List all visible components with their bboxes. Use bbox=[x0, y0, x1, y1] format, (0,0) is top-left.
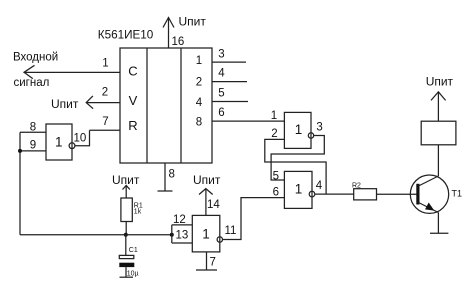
wire pin 14 bbox=[205, 189, 207, 216]
svg-text:7: 7 bbox=[102, 116, 108, 128]
wire C1 to ground bbox=[125, 267, 127, 277]
ground IC pin 8 bbox=[158, 190, 173, 192]
wire R2 to base bbox=[377, 193, 417, 195]
output circle pin 11 bbox=[217, 237, 222, 242]
svg-text:4: 4 bbox=[196, 97, 203, 109]
ground T1 bbox=[430, 232, 448, 234]
output circle pin 3 bbox=[308, 133, 313, 138]
svg-text:Uпит: Uпит bbox=[179, 15, 207, 29]
svg-text:1: 1 bbox=[295, 182, 303, 197]
wire pin 3 to pin 5 bbox=[271, 136, 324, 181]
wire left vertical bbox=[19, 132, 21, 235]
wire pin 4 to R2 bbox=[315, 193, 354, 195]
svg-text:8: 8 bbox=[169, 169, 175, 181]
svg-text:10: 10 bbox=[74, 133, 87, 145]
svg-text:К561ИЕ10: К561ИЕ10 bbox=[98, 28, 154, 41]
emitter line bbox=[419, 203, 439, 213]
svg-text:1: 1 bbox=[202, 227, 210, 242]
wire pin 7 R bbox=[90, 129, 121, 131]
wire R1 to node bbox=[125, 222, 127, 235]
ground gate pin 7 bbox=[196, 269, 217, 271]
wire pin 7 gate to ground bbox=[206, 252, 208, 270]
svg-text:2: 2 bbox=[271, 128, 277, 140]
input arrow bbox=[24, 65, 35, 78]
svg-text:8: 8 bbox=[30, 122, 36, 134]
svg-text:Uпит: Uпит bbox=[51, 97, 79, 111]
wire pin 12 bbox=[172, 224, 193, 226]
svg-text:6: 6 bbox=[218, 107, 224, 119]
svg-text:1: 1 bbox=[271, 110, 277, 122]
junction dot node RC bbox=[124, 233, 128, 237]
power arrow pin 14 bbox=[199, 189, 213, 195]
svg-text:3: 3 bbox=[218, 48, 224, 60]
wire pin 8 to ground bbox=[164, 163, 166, 191]
svg-text:C1: C1 bbox=[129, 247, 138, 254]
svg-text:1: 1 bbox=[295, 122, 303, 137]
resistor R2 bbox=[354, 189, 377, 200]
capacitor C1 top plate bbox=[119, 255, 134, 258]
wire output 8 pin 6 to gate D2.1 input 1 bbox=[212, 120, 284, 122]
svg-text:13: 13 bbox=[176, 229, 189, 241]
capacitor C1 bottom plate bbox=[119, 263, 134, 267]
resistor R1 bbox=[121, 198, 132, 222]
transistor T1 circle bbox=[410, 175, 448, 213]
load box bbox=[421, 121, 456, 145]
emitter arrowhead bbox=[425, 203, 434, 211]
gate D2.2 body bbox=[284, 171, 312, 208]
IC U1 К561ИЕ10 body bbox=[120, 48, 212, 163]
svg-text:1: 1 bbox=[102, 58, 108, 70]
svg-text:R: R bbox=[128, 118, 137, 133]
svg-text:2: 2 bbox=[196, 77, 202, 89]
svg-text:R2: R2 bbox=[352, 183, 361, 190]
wire arrow to R1 bbox=[125, 185, 127, 198]
svg-text:2: 2 bbox=[102, 87, 108, 99]
arrow V pin bbox=[86, 96, 93, 109]
svg-text:8: 8 bbox=[196, 117, 202, 129]
svg-text:4: 4 bbox=[218, 67, 225, 79]
wire pin 13 bbox=[172, 242, 193, 244]
wire output 2 pin 4 bbox=[212, 81, 247, 83]
wire collector to load bbox=[437, 145, 439, 176]
power arrow R1 bbox=[123, 185, 130, 189]
svg-text:1k: 1k bbox=[134, 208, 142, 215]
wire load to Uпит bbox=[437, 92, 439, 121]
wire emitter to ground bbox=[437, 213, 439, 234]
svg-text:сигнал: сигнал bbox=[14, 77, 50, 89]
svg-text:Uпит: Uпит bbox=[193, 173, 221, 187]
pin 8 wire bbox=[20, 131, 46, 133]
wire pin 16 bbox=[168, 18, 170, 49]
svg-text:10µ: 10µ bbox=[127, 271, 139, 278]
base bar bbox=[416, 184, 419, 205]
gate D2.3 body bbox=[46, 124, 72, 160]
wire Uпит to pin 2 V bbox=[86, 102, 120, 104]
pin 9 wire bbox=[20, 150, 46, 152]
collector line bbox=[419, 176, 439, 186]
gate D2.1 body bbox=[284, 112, 311, 148]
junction dot pin9 bbox=[18, 149, 22, 153]
wire input signal to pin 1 C bbox=[24, 71, 120, 73]
wire pin 2 feedback from pin 4 bbox=[265, 139, 326, 194]
svg-text:1: 1 bbox=[55, 135, 63, 150]
power arrow T1 bbox=[431, 92, 446, 101]
svg-text:T1: T1 bbox=[452, 189, 463, 199]
svg-text:3: 3 bbox=[316, 121, 322, 133]
svg-text:4: 4 bbox=[316, 180, 323, 192]
wire pin 10 to pin 7 R bbox=[75, 130, 90, 145]
svg-text:V: V bbox=[129, 93, 138, 108]
power arrow Uпит pin 16 bbox=[163, 18, 174, 28]
ground C1 bbox=[120, 276, 134, 278]
svg-text:Входной: Входной bbox=[13, 52, 58, 64]
svg-text:5: 5 bbox=[218, 87, 224, 99]
main horizontal wire bbox=[20, 234, 172, 236]
svg-text:Uпит: Uпит bbox=[426, 75, 454, 89]
svg-text:14: 14 bbox=[207, 199, 220, 211]
junction dot connector 12/13 bbox=[170, 233, 174, 237]
wire connector pins 12-13 bbox=[171, 225, 173, 243]
svg-text:5: 5 bbox=[273, 170, 279, 182]
wire pin 11 to pin 6 of D2.2 bbox=[223, 198, 285, 240]
output circle pin 10 bbox=[69, 143, 75, 149]
svg-text:12: 12 bbox=[173, 214, 186, 226]
output circle pin 4 bbox=[309, 191, 315, 197]
svg-text:7: 7 bbox=[210, 257, 216, 269]
svg-text:C: C bbox=[128, 64, 137, 79]
wire output 1 pin 3 bbox=[212, 61, 246, 63]
svg-text:6: 6 bbox=[273, 187, 279, 199]
svg-text:1: 1 bbox=[196, 55, 202, 67]
svg-text:9: 9 bbox=[30, 140, 36, 152]
svg-text:11: 11 bbox=[225, 225, 237, 237]
gate D2.4 body bbox=[192, 215, 220, 252]
wire node to C1 bbox=[125, 235, 127, 256]
wire output 4 pin 5 bbox=[212, 101, 248, 103]
svg-text:16: 16 bbox=[172, 36, 185, 48]
